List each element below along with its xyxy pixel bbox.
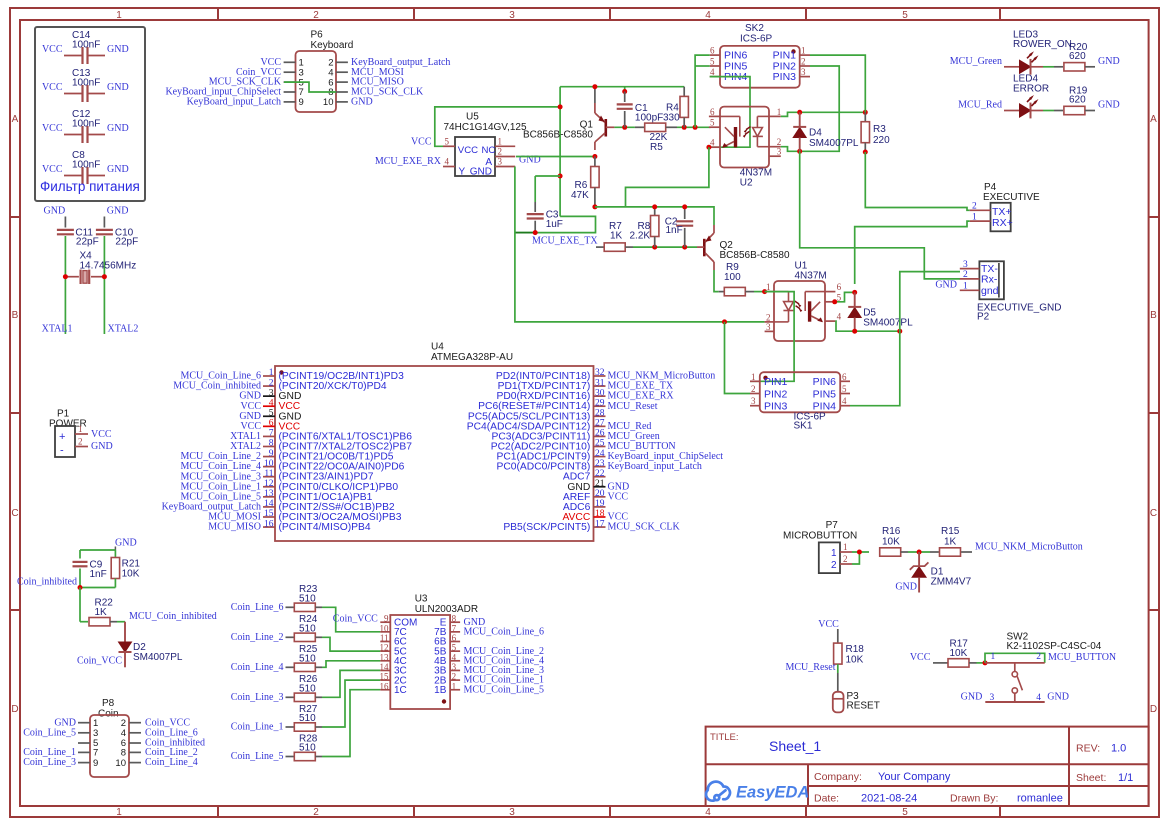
svg-text:10: 10	[380, 623, 390, 633]
wire Q1 base to R5	[614, 126, 635, 128]
svg-text:5: 5	[902, 10, 908, 21]
svg-text:1: 1	[116, 807, 122, 818]
svg-text:6: 6	[842, 372, 847, 382]
U3 pin 4	[450, 660, 460, 662]
P6 pin 2	[336, 61, 348, 63]
svg-text:7: 7	[452, 623, 457, 633]
svg-text:220: 220	[873, 135, 890, 146]
svg-text:(PCINT4/MISO)PB4: (PCINT4/MISO)PB4	[279, 522, 371, 533]
svg-text:4N37M: 4N37M	[795, 271, 827, 282]
resistor R8 2.2K	[654, 207, 656, 216]
P6 pin 9	[284, 101, 296, 103]
svg-text:-: -	[60, 445, 64, 457]
svg-text:Coin_Line_5: Coin_Line_5	[23, 727, 76, 738]
svg-text:29: 29	[595, 398, 605, 408]
U4 pin 20	[594, 496, 606, 498]
svg-text:10K: 10K	[846, 655, 864, 666]
svg-text:4: 4	[705, 807, 711, 818]
wire U5.A to Q1 collector	[516, 156, 595, 158]
svg-text:R5: R5	[650, 142, 663, 153]
SK1 pin 5	[840, 393, 850, 395]
svg-text:5: 5	[842, 384, 847, 394]
svg-text:ZMM4V7: ZMM4V7	[931, 576, 972, 587]
svg-text:3: 3	[766, 322, 771, 332]
U4 pin 27	[594, 425, 606, 427]
svg-text:Coin_Line_2: Coin_Line_2	[231, 632, 284, 643]
diode D5 SM4007PL	[854, 292, 856, 307]
svg-text:11: 11	[264, 469, 273, 479]
U1 pin 5	[825, 301, 835, 303]
U4 pin 1	[263, 375, 275, 377]
U1 pin 3	[765, 330, 774, 332]
P8 pin 8	[129, 751, 141, 753]
svg-text:GND: GND	[895, 582, 917, 593]
svg-text:B: B	[12, 310, 19, 321]
P8 pin 2	[129, 722, 141, 724]
U4 pin 12	[263, 486, 275, 488]
svg-text:1: 1	[831, 548, 837, 559]
U4 pin 19	[594, 506, 606, 508]
svg-text:GND: GND	[1098, 100, 1120, 111]
svg-text:PIN5: PIN5	[813, 388, 837, 400]
U3 pin 2	[450, 679, 460, 681]
wire Q1 emitter to rail	[594, 87, 596, 103]
wire VCC rail top	[560, 86, 684, 88]
U3 pin 7	[450, 631, 460, 633]
svg-text:Фильтр питания: Фильтр питания	[40, 179, 140, 194]
svg-text:GND: GND	[91, 441, 113, 452]
svg-text:2: 2	[777, 137, 782, 147]
svg-text:VCC: VCC	[458, 145, 478, 156]
svg-text:1: 1	[972, 212, 977, 222]
wire P7 pins to R16	[852, 551, 869, 553]
svg-text:GND: GND	[107, 44, 129, 55]
SK1 pin 2	[750, 393, 760, 395]
resistor R7 1K	[596, 246, 604, 248]
svg-text:2: 2	[269, 378, 274, 388]
wire Coin_inhibited node	[80, 587, 115, 589]
U5 pin 1 (NC)	[495, 145, 515, 147]
svg-text:MCU_EXE_RX: MCU_EXE_RX	[375, 156, 442, 167]
wire SK2 pin4 to U2 pin4	[709, 77, 750, 148]
svg-text:30: 30	[595, 388, 605, 398]
svg-text:5: 5	[710, 118, 715, 128]
resistor R4 330	[683, 87, 685, 97]
P2 pin 3	[960, 268, 980, 270]
svg-text:1: 1	[777, 107, 782, 117]
P6 pin 3	[284, 71, 296, 73]
P8 pin 1	[78, 722, 90, 724]
svg-text:1uF: 1uF	[546, 219, 563, 230]
svg-text:ROWER_ON: ROWER_ON	[1013, 39, 1072, 50]
capacitor C11 22pF	[64, 217, 66, 228]
svg-text:GND: GND	[1047, 691, 1069, 702]
svg-text:SK2: SK2	[745, 23, 764, 34]
connector P2 EXECUTIVE_GND	[979, 261, 1004, 299]
svg-text:PIN3: PIN3	[773, 71, 797, 83]
svg-text:MCU_SCK_CLK: MCU_SCK_CLK	[608, 522, 681, 533]
svg-text:ULN2003ADR: ULN2003ADR	[415, 604, 478, 615]
U4 pin 5	[263, 415, 275, 417]
svg-text:2: 2	[1036, 652, 1041, 662]
wire SK2 pin6/pin5 to U2 pin5	[695, 55, 710, 127]
svg-text:VCC: VCC	[42, 123, 63, 134]
U4 pin 29	[594, 405, 606, 407]
svg-text:1B: 1B	[434, 685, 447, 696]
wire P6 pin5 to pin8	[284, 82, 336, 92]
svg-text:TITLE:: TITLE:	[710, 732, 739, 743]
svg-text:C: C	[11, 508, 18, 519]
svg-text:18: 18	[595, 509, 605, 519]
svg-text:22: 22	[595, 469, 605, 479]
svg-text:ERROR: ERROR	[1013, 83, 1049, 94]
U2 pin 3	[769, 155, 781, 157]
P4 pin 2	[970, 209, 991, 211]
svg-text:XTAL1: XTAL1	[42, 323, 73, 334]
svg-text:32: 32	[595, 368, 605, 378]
U3 pin 11	[380, 641, 390, 643]
svg-text:Coin_Line_4: Coin_Line_4	[231, 662, 284, 673]
U2 pin 6	[709, 115, 720, 117]
U3 pin 12	[380, 650, 390, 652]
svg-text:Coin_inhibited: Coin_inhibited	[17, 576, 77, 587]
svg-text:gnd: gnd	[981, 285, 999, 297]
svg-text:15: 15	[264, 509, 274, 519]
U3 pin 3	[450, 669, 460, 671]
svg-text:8: 8	[452, 614, 457, 624]
power filter group box	[35, 27, 145, 201]
wire D4 bottom down to P2 net	[800, 151, 960, 279]
svg-text:1: 1	[452, 681, 457, 691]
svg-text:3: 3	[963, 260, 968, 270]
svg-text:12: 12	[264, 479, 274, 489]
svg-text:23: 23	[595, 459, 605, 469]
svg-text:1: 1	[116, 10, 122, 21]
svg-text:2: 2	[313, 807, 319, 818]
svg-text:MICROBUTTON: MICROBUTTON	[783, 531, 857, 542]
svg-text:KeyBoard_input_Latch: KeyBoard_input_Latch	[187, 97, 281, 108]
svg-text:MCU_MISO: MCU_MISO	[208, 522, 261, 533]
U5 pin 4	[443, 166, 455, 168]
P7 pin 2	[840, 563, 852, 565]
svg-text:1nF: 1nF	[90, 569, 107, 580]
U4 pin 22	[594, 476, 606, 478]
optocoupler U2 4N37M	[720, 107, 769, 168]
svg-text:3: 3	[751, 396, 756, 406]
svg-text:620: 620	[1069, 95, 1086, 106]
svg-text:MCU_Red: MCU_Red	[958, 100, 1002, 111]
svg-text:21: 21	[595, 479, 605, 489]
U4 pin 16	[263, 526, 275, 528]
svg-text:22pF: 22pF	[76, 236, 99, 247]
svg-text:2021-08-24: 2021-08-24	[861, 793, 917, 805]
wire GND to C9/R21	[80, 549, 115, 551]
svg-text:1: 1	[78, 424, 83, 434]
wire C10 to XTAL2	[103, 236, 105, 334]
SK1 pin 3	[750, 405, 760, 407]
svg-text:romanlee: romanlee	[1017, 793, 1063, 805]
P8 pin 10	[129, 762, 141, 764]
svg-text:GND: GND	[107, 164, 129, 175]
P8 pin 4	[129, 732, 141, 734]
svg-text:P6: P6	[311, 30, 324, 41]
U3 pin 5	[450, 650, 460, 652]
transistor Q2 BC856B-C8580	[703, 239, 706, 256]
P2 pin 1	[960, 289, 980, 291]
U4 pin 15	[263, 516, 275, 518]
wire C11 to XTAL1	[64, 236, 66, 334]
svg-text:4: 4	[837, 312, 842, 322]
wire rail to SK1 pin2	[725, 322, 751, 394]
svg-text:Company:: Company:	[814, 771, 862, 783]
svg-text:GND: GND	[961, 691, 983, 702]
SK2 pin 5	[710, 65, 720, 67]
svg-text:4: 4	[452, 652, 457, 662]
U1 pin 1	[765, 291, 774, 293]
U2 pin 4	[709, 146, 720, 148]
P8 pin 3	[78, 732, 90, 734]
svg-text:1: 1	[498, 137, 503, 147]
svg-text:1K: 1K	[610, 231, 623, 242]
svg-text:Coin_Line_3: Coin_Line_3	[231, 692, 284, 703]
svg-text:3: 3	[452, 662, 457, 672]
U4 pin 7	[263, 435, 275, 437]
svg-text:1: 1	[963, 282, 968, 292]
svg-text:ATMEGA328P-AU: ATMEGA328P-AU	[431, 352, 513, 363]
capacitor C2 1nF	[684, 207, 686, 219]
svg-text:GND: GND	[44, 206, 66, 217]
svg-text:31: 31	[595, 378, 605, 388]
svg-text:1C: 1C	[394, 685, 407, 696]
svg-text:VCC: VCC	[411, 137, 432, 148]
svg-text:14: 14	[264, 499, 274, 509]
svg-text:9: 9	[384, 614, 389, 624]
capacitor C3 1uF	[535, 175, 560, 177]
svg-text:MCU_Coin_Line_5: MCU_Coin_Line_5	[464, 684, 545, 695]
svg-text:100: 100	[724, 272, 741, 283]
svg-text:D: D	[11, 704, 18, 715]
U4 pin 3	[263, 395, 275, 397]
svg-text:5: 5	[710, 57, 715, 67]
U5 pin 5	[443, 145, 455, 147]
svg-text:1: 1	[991, 652, 996, 662]
svg-text:KeyBoard_input_Latch: KeyBoard_input_Latch	[608, 461, 702, 472]
svg-text:1: 1	[269, 368, 274, 378]
svg-text:PB5(SCK/PCINT5): PB5(SCK/PCINT5)	[503, 522, 590, 533]
svg-text:Your Company: Your Company	[878, 771, 951, 783]
svg-text:BC856B-C8580: BC856B-C8580	[720, 250, 790, 261]
svg-text:MCU_Reset: MCU_Reset	[608, 401, 658, 412]
svg-text:5: 5	[452, 643, 457, 653]
P6 pin 5	[284, 81, 296, 83]
svg-text:SM4007PL: SM4007PL	[133, 652, 183, 663]
U4 pin 32	[594, 375, 606, 377]
svg-text:16: 16	[264, 519, 274, 529]
svg-text:13: 13	[264, 489, 274, 499]
wire P4 pin1 left	[855, 221, 970, 284]
U4 pin 14	[263, 506, 275, 508]
svg-text:10K: 10K	[122, 569, 140, 580]
U2 pin 2	[769, 146, 781, 148]
P4 pin 1	[970, 220, 991, 222]
svg-text:28: 28	[595, 408, 605, 418]
svg-text:47K: 47K	[571, 190, 589, 201]
svg-text:VCC: VCC	[42, 82, 63, 93]
svg-text:20: 20	[595, 489, 605, 499]
svg-text:ICS-6P: ICS-6P	[740, 34, 773, 45]
U3 pin 6	[450, 641, 460, 643]
svg-text:10K: 10K	[882, 537, 900, 548]
U5 pin 2 (A)	[495, 156, 515, 158]
svg-text:Rx-: Rx-	[981, 273, 998, 285]
wire R7 to Q2 base	[633, 246, 697, 248]
svg-text:100nF: 100nF	[72, 118, 100, 129]
svg-text:R16: R16	[882, 526, 901, 537]
svg-text:Coin_Line_3: Coin_Line_3	[23, 757, 76, 768]
svg-text:U3: U3	[415, 594, 428, 605]
zener D1 ZMM4V7	[918, 552, 920, 567]
U4 pin 13	[263, 496, 275, 498]
svg-text:SM4007PL: SM4007PL	[863, 317, 913, 328]
svg-text:14.7456MHz: 14.7456MHz	[80, 261, 137, 272]
P8 pin 7	[78, 751, 90, 753]
svg-text:3: 3	[509, 10, 515, 21]
svg-text:6: 6	[452, 633, 457, 643]
svg-text:14: 14	[380, 662, 390, 672]
svg-text:R15: R15	[941, 526, 960, 537]
wires R23-R28 to U3	[322, 607, 380, 632]
U4 pin 21	[594, 486, 606, 488]
svg-text:17: 17	[595, 519, 605, 529]
svg-text:10: 10	[323, 97, 334, 108]
svg-text:PIN1: PIN1	[764, 376, 788, 388]
svg-text:MCU_EXE_TX: MCU_EXE_TX	[532, 236, 598, 247]
svg-text:Date:: Date:	[814, 793, 839, 805]
SK2 pin 3	[800, 76, 810, 78]
U4 pin 26	[594, 435, 606, 437]
U4 pin 31	[594, 385, 606, 387]
svg-text:SM4007PL: SM4007PL	[809, 138, 859, 149]
wire MCU_EXE_TX node	[515, 216, 596, 232]
svg-text:13: 13	[380, 652, 390, 662]
svg-text:MCU_Reset: MCU_Reset	[786, 662, 836, 673]
svg-text:5: 5	[837, 292, 842, 302]
svg-text:16: 16	[380, 681, 390, 691]
svg-text:VCC: VCC	[608, 491, 629, 502]
SK2 pin 4	[710, 76, 720, 78]
svg-text:4: 4	[710, 67, 715, 77]
svg-text:74HC1G14GV,125: 74HC1G14GV,125	[444, 122, 527, 133]
junction dots crystal	[63, 274, 68, 279]
capacitor C10 22pF	[103, 217, 105, 228]
svg-text:VCC: VCC	[910, 652, 931, 663]
P6 pin 10	[336, 101, 348, 103]
svg-text:1/1: 1/1	[1118, 772, 1133, 784]
resistor R18 10K	[834, 643, 842, 664]
svg-text:P7: P7	[826, 520, 839, 531]
svg-text:2: 2	[831, 560, 837, 571]
wire U1 pin5 to D5	[835, 292, 854, 301]
resistor R21 10K	[114, 550, 116, 558]
wire U2 pin4 to R6 bottom	[706, 145, 711, 150]
U3 pin 16	[380, 689, 390, 691]
resistor R5 22K	[635, 126, 645, 128]
svg-text:1: 1	[843, 542, 848, 552]
svg-text:6: 6	[269, 419, 274, 429]
svg-text:620: 620	[1069, 51, 1086, 62]
svg-text:EasyEDA: EasyEDA	[736, 784, 809, 802]
U4 pin 11	[263, 476, 275, 478]
svg-text:2: 2	[751, 384, 756, 394]
svg-text:2: 2	[963, 270, 968, 280]
svg-text:SK1: SK1	[794, 421, 813, 432]
svg-text:Coin_Line_4: Coin_Line_4	[145, 757, 198, 768]
svg-text:1.0: 1.0	[1111, 743, 1126, 755]
svg-text:24: 24	[595, 449, 605, 459]
svg-text:PIN3: PIN3	[764, 401, 788, 413]
svg-text:D4: D4	[809, 128, 822, 139]
svg-text:1nF: 1nF	[666, 225, 683, 236]
wire U1 pin4 to D5 bottom	[835, 321, 899, 331]
svg-text:1: 1	[801, 46, 806, 56]
svg-text:2: 2	[313, 10, 319, 21]
svg-text:3: 3	[801, 67, 806, 77]
svg-text:2: 2	[801, 57, 806, 67]
U4 pin 24	[594, 456, 606, 458]
svg-text:RESET: RESET	[847, 701, 880, 712]
U4 pin 8	[263, 445, 275, 447]
svg-text:2: 2	[843, 554, 848, 564]
wire D5 bottom to P2 pin3 / SK1 pin4	[900, 272, 960, 332]
svg-text:5: 5	[902, 807, 908, 818]
U1 pin 4	[825, 320, 835, 322]
P8 pin 6	[129, 742, 141, 744]
svg-text:VCC: VCC	[818, 619, 839, 630]
svg-text:100nF: 100nF	[72, 39, 100, 50]
svg-text:R18: R18	[846, 644, 865, 655]
title block	[706, 727, 1149, 806]
U4 pin 23	[594, 466, 606, 468]
U4 pin 6	[263, 425, 275, 427]
SK2 pin 1	[800, 54, 810, 56]
svg-text:3: 3	[498, 157, 503, 167]
svg-text:2: 2	[452, 672, 457, 682]
svg-text:4: 4	[445, 157, 450, 167]
U1 pin 6	[825, 291, 835, 293]
U4 pin 17	[594, 526, 606, 528]
wire U2 pin1 to D4/R3	[781, 112, 866, 116]
P8 pin 9	[78, 762, 90, 764]
svg-text:GND: GND	[115, 538, 137, 549]
svg-text:6: 6	[837, 282, 842, 292]
svg-text:10: 10	[115, 758, 126, 769]
svg-text:3: 3	[269, 388, 274, 398]
svg-text:22pF: 22pF	[115, 236, 138, 247]
SK2 pin 6	[710, 54, 720, 56]
svg-text:GND: GND	[470, 167, 492, 178]
svg-text:2: 2	[766, 312, 771, 322]
svg-text:19: 19	[595, 499, 605, 509]
svg-text:100nF: 100nF	[72, 77, 100, 88]
svg-text:K2-1102SP-C4SC-04: K2-1102SP-C4SC-04	[1007, 641, 1102, 652]
svg-text:GND: GND	[1098, 56, 1120, 67]
wire SK2 pin1 down through R3 to P4	[810, 55, 865, 112]
svg-text:1K: 1K	[944, 537, 957, 548]
svg-text:U2: U2	[740, 178, 753, 189]
svg-text:5: 5	[445, 137, 450, 147]
U4 pin 10	[263, 466, 275, 468]
U3 pin 9	[380, 621, 390, 623]
